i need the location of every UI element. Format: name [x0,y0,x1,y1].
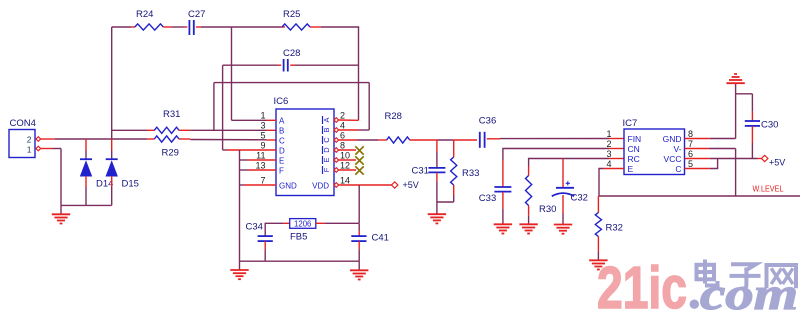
svg-text:D: D [322,147,331,153]
IC6 input labels A-F [279,116,285,175]
capacitor C33 top lead [502,160,504,187]
wire R24-C27 [163,26,187,28]
capacitor C30 top lead [751,94,753,121]
svg-text:C33: C33 [479,193,496,204]
wire vertical loop left to pin3 [213,83,215,131]
IC6 pin 6 wire [334,138,387,143]
wire D15 bottom lead [111,176,113,205]
CON4 pin 1 label [27,144,32,154]
wire pin7 down to WLEVEL [735,149,737,197]
svg-text:VDD: VDD [312,181,329,190]
ground symbol R32 [589,260,607,269]
svg-text:10: 10 [340,151,350,161]
svg-text:CON4: CON4 [10,118,36,129]
resistor R32 bottom lead [597,237,599,261]
wire R33 bottom corner [437,201,454,203]
ground symbol CON4 [52,205,70,223]
wire ground chain vertical [239,150,241,261]
wire C36 to IC7 pin1 [487,138,624,140]
resistor R24 [135,9,164,30]
logo glyph zi [730,264,761,288]
IC IC7 box [623,118,685,175]
ferrite bead FB5 [290,219,316,243]
svg-text:3: 3 [260,121,265,131]
svg-text:2: 2 [27,135,32,145]
wire R29 row right [179,139,276,140]
svg-text:8: 8 [340,141,345,151]
svg-text:11: 11 [256,151,265,161]
IC7 left labels [628,134,642,174]
ground symbol bus right [350,261,368,279]
svg-text:A: A [322,117,331,122]
+5V terminal IC7 [762,155,786,167]
svg-text:VCC: VCC [664,154,682,164]
svg-text:C41: C41 [372,233,389,244]
svg-text:14: 14 [340,176,350,186]
logo text 21ic [597,255,687,310]
ground symbol C33 [494,224,512,233]
ground symbol R30 [519,224,537,233]
svg-text:+5V: +5V [769,157,785,167]
wire R31 row left [112,129,155,131]
wire CN row [503,149,624,161]
svg-text:2: 2 [340,111,345,121]
capacitor C27 [188,9,205,35]
wire R31 row right [179,129,276,131]
wire R25 right to corner [310,26,359,28]
capacitor C34 [246,222,273,242]
IC6 VDD label [312,181,329,190]
wire C34 top corner [265,223,290,236]
svg-text:CN: CN [628,144,640,154]
IC7 left pin numbers [606,129,611,169]
IC6 pin 10 wire no-connect [334,156,364,164]
svg-text:RC: RC [628,154,640,164]
capacitor C30 [745,119,779,130]
capacitor C31 bottom lead [436,173,438,202]
svg-text:2: 2 [606,139,611,149]
IC6 pin 2 wire [334,118,359,123]
svg-text:4: 4 [340,121,345,131]
IC IC6 box [274,96,335,196]
svg-text:5: 5 [260,131,265,141]
logo dot [690,300,699,309]
svg-text:5: 5 [688,159,693,169]
svg-text:FB5: FB5 [290,232,307,243]
svg-text:D: D [279,146,285,155]
capacitor C31 [412,166,446,177]
svg-text:B: B [279,126,284,135]
diode D14 [80,159,114,189]
resistor R30 bottom lead [528,206,530,225]
wire input line [48,138,147,140]
svg-text:E: E [279,156,284,165]
svg-text:13: 13 [255,161,265,171]
svg-text:1: 1 [27,144,32,154]
wire FB5 right lead [316,222,359,224]
wire C31 node to R33 node [437,139,454,141]
wire R24 left lead [131,26,135,28]
svg-text:B: B [322,127,331,132]
resistor R33 top lead [453,140,455,157]
IC6 left pin numbers [255,111,265,186]
svg-text:IC7: IC7 [623,118,638,129]
CON4 pin 2 stub [36,137,48,142]
svg-text:F: F [322,167,331,172]
svg-text:12: 12 [340,161,350,171]
IC6 pin 7 GND wire [240,184,277,186]
capacitor C32 bottom lead [562,195,564,225]
wire D14 top lead [85,139,87,159]
svg-text:C: C [675,164,681,174]
wire D15 top lead [111,139,113,159]
wire WLEVEL row [599,195,800,197]
IC7 pin 5 wire [685,159,718,169]
resistor R30 [526,176,557,216]
svg-text:C28: C28 [283,48,300,59]
capacitor C41 [351,233,389,244]
resistor R32 top lead [597,196,599,213]
svg-text:C36: C36 [479,116,496,127]
svg-text:1: 1 [260,111,265,121]
capacitor C32 [552,188,588,204]
wire C28 row left [223,64,282,66]
resistor R31 [154,109,180,133]
svg-text:C: C [322,137,331,143]
wire C28 row right [290,64,358,66]
IC6 pin 1 wire [232,119,277,121]
wire vertical top-left down to input line [111,27,113,139]
net label W.LEVEL [753,184,784,194]
resistor R33 bottom lead [453,185,455,202]
capacitor C30 bottom lead [751,126,753,159]
wire vertical C28 left to pin9 row [222,65,224,150]
svg-text:8: 8 [688,129,693,139]
svg-text:R25: R25 [283,9,300,20]
svg-text:7: 7 [260,176,265,186]
svg-text:9: 9 [260,141,265,151]
IC6 right pin numbers [340,111,350,186]
wire R33 node to C36 [454,139,477,141]
+5V terminal IC6 [392,180,419,190]
wire C27-junction [196,26,281,28]
svg-text:GND: GND [663,134,682,144]
IC6 pin 9 wire [223,149,276,151]
wire top feedback line left segment [112,26,131,28]
CON4 pin 2 label [27,135,32,145]
wire pin8 up to ground [736,94,753,139]
IC6 pin 13 wire [240,169,277,171]
logo text com [700,268,798,310]
capacitor C32 polarity mark [566,181,570,185]
svg-text:+5V: +5V [403,180,419,190]
IC6 pin 14 VDD wire [334,183,392,188]
svg-text:C34: C34 [246,222,263,233]
resistor R29 [154,136,179,159]
wire vertical loop right to pin4 [368,83,370,130]
capacitor C33 [479,187,512,204]
capacitor C31 top lead [436,140,438,168]
IC7 pin 4 wire [599,169,624,197]
capacitor C28 [283,48,300,72]
svg-text:FIN: FIN [628,134,642,144]
resistor R28 [385,111,410,143]
capacitor C33 bottom lead [502,192,504,224]
wire CON4 pin1 to ground [53,149,62,206]
svg-text:C30: C30 [761,119,778,130]
svg-text:R29: R29 [162,148,179,159]
IC6 pin 4 wire [334,128,369,133]
CON4 pin 1 stub [36,146,53,151]
resistor R32 [595,213,623,237]
wire +5V down to FB5 row [358,185,360,223]
wire R28 to C31 node [410,139,437,141]
svg-text:R31: R31 [163,109,180,120]
wire C34 bottom lead [264,241,266,261]
svg-text:IC6: IC6 [274,96,289,107]
ground symbol C32 [554,225,572,234]
IC7 pin 8 wire [685,138,736,140]
IC7 pin 7 wire [685,148,736,150]
IC6 pin 12 wire no-connect [334,166,364,174]
wire ground rail [61,204,112,206]
resistor R33 [451,157,480,185]
IC6 pin 11 wire [240,159,277,161]
svg-text:3: 3 [606,149,611,159]
IC6 GND label [279,181,297,190]
svg-text:C27: C27 [188,9,205,20]
svg-text:E: E [628,164,634,174]
wire R29 left lead [147,138,155,140]
svg-text:R33: R33 [462,168,479,179]
wire vertical C27/R25 junction to IC6 pin1 [231,27,233,120]
diode D15 [106,159,139,189]
svg-text:1206: 1206 [294,219,311,228]
IC6 inverted output labels [322,116,331,174]
svg-text:6: 6 [340,131,345,141]
svg-text:21ic: 21ic [597,255,687,310]
svg-text:4: 4 [606,159,611,169]
wire RC row [529,159,624,176]
ground symbol top inverted [726,74,744,94]
IC6 pin 8 wire no-connect [334,146,364,154]
capacitor C32 top lead [562,159,564,188]
IC7 pin 6 VCC wire [685,158,762,160]
wire ground bus [240,260,360,262]
resistor R25 [282,9,310,30]
svg-text:F: F [279,166,284,175]
svg-text:GND: GND [279,181,297,190]
ground symbol bus left [230,261,248,279]
svg-text:V-: V- [673,144,681,154]
logo glyph wang [767,265,797,288]
svg-text:R24: R24 [136,9,153,20]
wire R25 left lead [281,26,285,28]
svg-text:1: 1 [606,129,611,139]
connector CON4 [9,118,36,158]
svg-text:W.LEVEL: W.LEVEL [753,184,784,194]
svg-text:R28: R28 [385,111,402,122]
logo glyph dian [697,260,718,286]
svg-text:7: 7 [688,139,693,149]
svg-text:D15: D15 [122,179,139,190]
wire B-feedback row [214,82,369,84]
wire D14 bottom lead [85,176,87,205]
svg-text:6: 6 [688,149,693,159]
svg-text:R32: R32 [606,223,623,234]
svg-text:C32: C32 [571,193,588,204]
svg-text:A: A [279,116,285,125]
svg-text:D14: D14 [96,179,113,190]
svg-text:C31: C31 [412,166,429,177]
svg-text:R30: R30 [539,204,556,215]
wire C41 bottom lead [358,241,360,261]
capacitor C36 [479,116,496,148]
IC7 right pin numbers [688,129,693,169]
IC7 right labels [663,134,682,174]
svg-text:C: C [279,136,285,145]
ground symbol C31 [428,202,446,223]
svg-text:E: E [322,157,331,162]
wire FB5 to C41 [358,223,360,236]
wire vertical R25 right down to pin2 node [358,27,360,120]
